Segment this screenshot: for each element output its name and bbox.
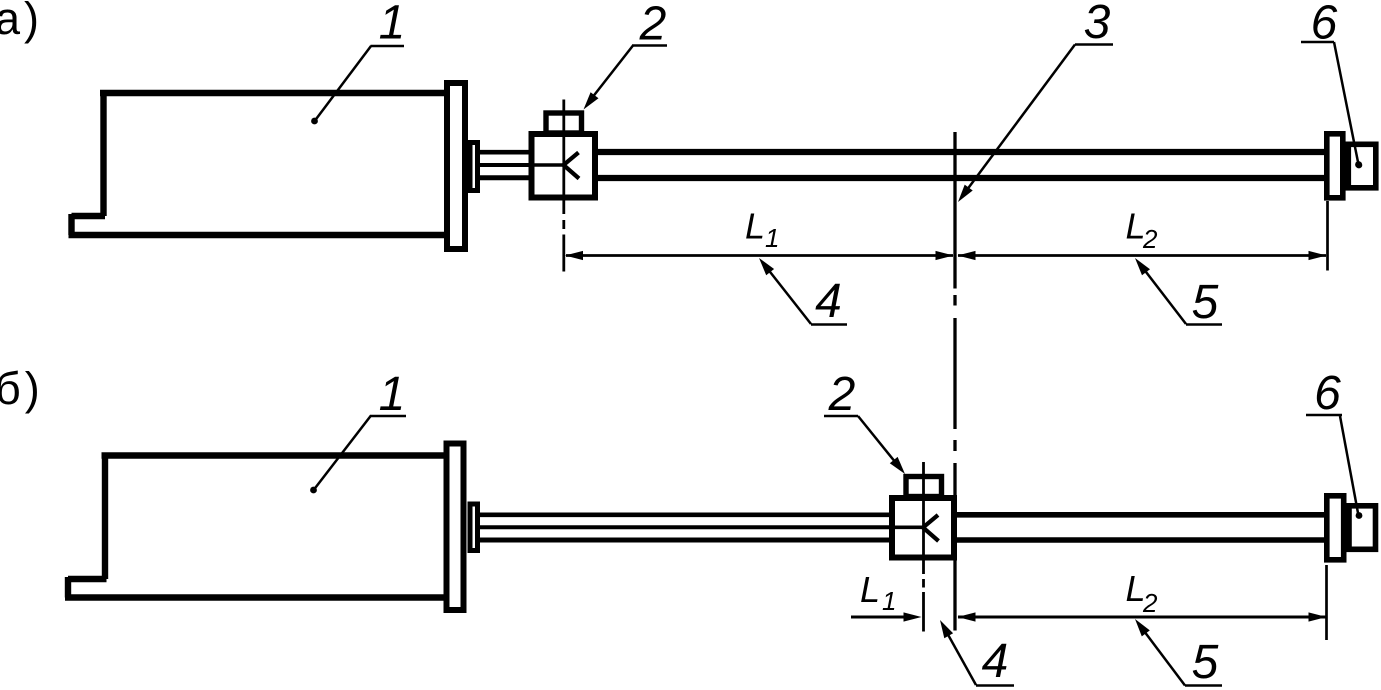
motor 1 shaft hub (fig b) — [470, 504, 478, 551]
svg-text:4: 4 — [982, 635, 1009, 688]
extension line at rod end (fig a) — [1326, 201, 1329, 271]
chevron mark in sensor (fig a) — [564, 153, 580, 179]
end fitting 6 (fig a) — [1348, 144, 1376, 188]
sensor 2 body (fig a) — [532, 134, 596, 198]
svg-text:а): а) — [0, 0, 43, 44]
svg-text:1: 1 — [765, 223, 779, 253]
leader of label 6 (fig a) — [1334, 42, 1359, 165]
end fitting 6 (fig b) — [1349, 506, 1376, 550]
reference plane centerline 3 (spans both figures) — [953, 132, 956, 631]
svg-text:1: 1 — [379, 368, 406, 421]
leader of label 4 (fig a) — [765, 266, 811, 325]
motor 1 flange (fig a) — [447, 83, 465, 249]
leader of label 1 (fig b) — [314, 416, 371, 490]
L2 left arrowhead (fig b) — [958, 612, 976, 621]
L2 left arrowhead (fig a) — [958, 251, 976, 260]
chevron mark in sensor (fig b) — [923, 515, 939, 541]
leader of label 1 (fig a) — [315, 46, 371, 121]
dimension line L1 (fig a) — [566, 254, 953, 257]
sensor 2 top nut (fig b) — [906, 477, 942, 497]
shaft end line inside sensor (fig b) — [891, 525, 924, 529]
leader of label 5 (fig a) — [1141, 266, 1186, 325]
motor 1 body (fig a) — [69, 90, 447, 235]
motor 1 shaft hub (fig a) — [470, 143, 478, 191]
rod lower line (fig b) — [952, 537, 1330, 543]
rod lower line (fig a) — [595, 175, 1330, 181]
leader of label 3 (fig a) — [965, 45, 1075, 193]
dimension line L2 (fig a) — [958, 254, 1326, 257]
rod end flange (fig a) — [1327, 134, 1343, 198]
svg-text:2: 2 — [1142, 588, 1158, 618]
leader of label 5 (fig b) — [1141, 627, 1185, 686]
L1 right arrowhead (fig a) — [936, 251, 954, 260]
shaft end line inside sensor (fig a) — [531, 163, 564, 167]
leader of label 2 (fig b) — [858, 416, 900, 468]
svg-text:1: 1 — [379, 0, 406, 50]
L2 right arrowhead (fig a) — [1309, 251, 1327, 260]
svg-text:1: 1 — [882, 586, 896, 616]
L1 left arrowhead (fig a) — [565, 251, 583, 260]
sensor centerline (fig a) — [562, 100, 565, 272]
rod upper line (fig a) — [595, 149, 1330, 155]
svg-text:5: 5 — [1192, 276, 1219, 329]
shaft lower line (fig b) — [478, 538, 894, 543]
sensor centerline (fig b) — [922, 462, 925, 632]
svg-text:L: L — [860, 569, 880, 610]
L2 right arrowhead (fig b) — [1309, 612, 1327, 621]
svg-text:4: 4 — [815, 275, 842, 328]
svg-text:6: 6 — [1314, 367, 1341, 420]
shaft upper line (fig a) — [478, 150, 533, 155]
shaft middle line (fig b) — [478, 525, 922, 529]
svg-text:6: 6 — [1311, 0, 1338, 50]
rod upper line (fig b) — [952, 512, 1330, 518]
svg-text:2: 2 — [828, 368, 856, 421]
dimension line L2 (fig b) — [958, 616, 1326, 619]
svg-text:2: 2 — [639, 0, 667, 51]
leader of label 2 (fig a) — [588, 46, 633, 104]
extension line at rod end (fig b) — [1325, 565, 1328, 640]
motor 1 body (fig b) — [65, 453, 445, 598]
L1 arrowhead pointing right (fig b) — [904, 612, 922, 621]
locator dot of label 6 (fig a) — [1356, 162, 1363, 169]
shaft middle line (fig a) — [478, 163, 562, 167]
shaft lower line (fig a) — [478, 175, 533, 180]
rod end flange (fig b) — [1327, 496, 1344, 560]
sensor 2 body (fig b) — [892, 498, 954, 558]
svg-text:5: 5 — [1192, 636, 1219, 689]
leader of label 4 (fig b) — [946, 631, 976, 685]
dimension line L1 left part (fig b) — [851, 616, 906, 619]
svg-text:L: L — [745, 206, 765, 247]
leader of label 6 (fig b) — [1340, 416, 1358, 513]
svg-text:3: 3 — [1084, 0, 1111, 49]
svg-text:б): б) — [0, 363, 44, 414]
sensor 2 top nut (fig a) — [546, 113, 582, 133]
svg-text:2: 2 — [1142, 224, 1158, 254]
shaft upper line (fig b) — [478, 512, 894, 517]
motor 1 flange (fig b) — [447, 444, 464, 611]
